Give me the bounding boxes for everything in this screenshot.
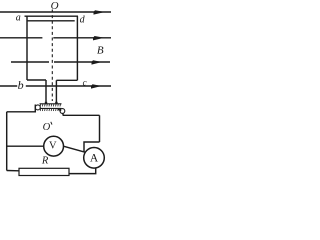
arrowhead B2 <box>93 36 105 40</box>
lead wire 1 brush joint <box>45 102 47 104</box>
wire: bottom-left to resistor <box>7 170 19 172</box>
svg-text:O: O <box>43 122 51 133</box>
svg-text:c: c <box>83 78 87 88</box>
coil outer top edge a-d <box>25 15 79 17</box>
wire: circuit right vertical <box>99 115 101 142</box>
lead wire 2 brush joint <box>55 102 57 104</box>
field line B3 left segment <box>11 61 49 63</box>
lead wire from b-side down to slip ring 1 <box>45 80 47 104</box>
arrowhead B1 <box>94 10 106 14</box>
svg-text:b: b <box>18 78 24 92</box>
svg-text:a: a <box>16 13 21 24</box>
coil bottom edge left half <box>27 79 46 81</box>
svg-text:B: B <box>97 45 104 57</box>
arrowhead B3 <box>92 60 103 64</box>
resistor R box <box>19 168 69 175</box>
prime mark of O' <box>51 122 52 125</box>
field line B4 main segment <box>26 85 111 87</box>
brush 1 hatching <box>40 104 60 107</box>
wire: left brush to circuit top-left <box>7 105 36 112</box>
brush 2 hatching <box>40 108 60 111</box>
coil left side ab <box>26 16 28 80</box>
lead wire from c-side down to slip ring 2 <box>55 80 57 103</box>
wire: left vertical to voltmeter <box>7 145 44 147</box>
wire: voltmeter to ammeter (diagonal) <box>63 146 85 152</box>
svg-text:d: d <box>80 15 86 26</box>
field line B3 right segment <box>54 61 110 63</box>
wire: right vertical to ammeter branch <box>84 142 100 152</box>
wire: circuit left vertical <box>6 112 8 171</box>
coil inner top edge (second turn) <box>28 20 75 22</box>
wire: right ring to horizontal <box>62 113 64 115</box>
wire: resistor to ammeter bottom <box>69 168 96 173</box>
ammeter A circle <box>84 148 105 169</box>
svg-text:V: V <box>49 141 57 152</box>
coil bottom edge right half <box>56 79 77 81</box>
wire: circuit top-right horizontal <box>63 114 100 116</box>
field line B2 right segment <box>53 37 111 39</box>
voltmeter V circle <box>44 136 64 156</box>
wire: right brush diagonal lead <box>58 108 62 111</box>
terminal ring (right) <box>60 109 65 114</box>
slip ring / brush plate 2 <box>40 107 62 109</box>
arrowhead B4 <box>91 84 102 88</box>
field line B1 (top) <box>0 11 111 13</box>
rotation axis OO' (dashed) <box>51 10 53 102</box>
coil right side dc <box>76 16 78 80</box>
svg-text:O: O <box>51 0 59 12</box>
field line B2 left segment <box>0 37 42 39</box>
slip ring / brush plate 1 <box>40 103 62 105</box>
field line B4 left segment (ends at label b) <box>0 85 17 87</box>
terminal ring (left) <box>35 105 40 110</box>
svg-text:R: R <box>41 155 49 166</box>
svg-text:A: A <box>90 153 99 165</box>
